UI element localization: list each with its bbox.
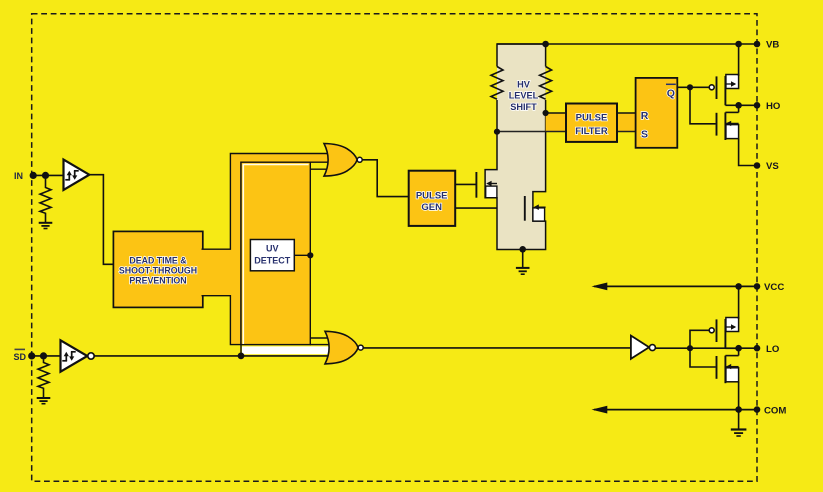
wire: UV line to NOR1 lower input — [310, 168, 333, 170]
svg-text:DEAD TIME &: DEAD TIME & — [129, 255, 187, 265]
node: gate feed junction — [687, 345, 693, 351]
ground (COM) — [731, 410, 747, 436]
svg-text:PREVENTION: PREVENTION — [129, 275, 186, 285]
resistor R3 (left level-shift) — [491, 67, 497, 101]
block: PULSE FILTER — [566, 104, 617, 142]
highlight margin inside UV bus block — [243, 165, 308, 345]
ground (IN resistor) — [39, 223, 53, 229]
wire: UV DETECT output — [294, 254, 310, 256]
buffer U2 (SD schmitt inverter) — [61, 340, 88, 371]
wire: inverter output to LO node — [655, 347, 738, 349]
svg-text:HV: HV — [517, 80, 531, 90]
svg-text:COM: COM — [764, 405, 786, 416]
svg-text:SD: SD — [14, 352, 27, 362]
wire: NOR1 output to pulse gen — [362, 160, 409, 197]
node: VCC junction — [735, 283, 742, 290]
transistor M1 (level shift left) — [476, 172, 497, 198]
node: IN resistor junction — [42, 172, 49, 179]
bubble U2 output — [88, 353, 94, 359]
svg-text:PULSE: PULSE — [416, 190, 448, 201]
node: level-shift source junction — [519, 246, 526, 253]
svg-text:UV: UV — [266, 244, 279, 254]
svg-text:HO: HO — [766, 101, 781, 112]
wire: SD line to NOR2 — [94, 355, 330, 357]
wire: buffer U1 output to dead-time block — [89, 175, 113, 265]
wire: pulse gen to M2 gate — [455, 207, 524, 209]
svg-text:SHOOT-THROUGH: SHOOT-THROUGH — [119, 265, 197, 275]
node: VB rail resistor junction — [542, 41, 549, 48]
svg-text:R: R — [641, 110, 649, 122]
svg-text:FILTER: FILTER — [575, 126, 608, 137]
buffer U1 (IN schmitt trigger) — [64, 160, 90, 191]
transistor Q4 (low-side NMOS) — [717, 356, 739, 384]
node HO junction + wire — [739, 104, 757, 106]
wire: R line — [546, 112, 636, 114]
wire: block bottom outline extension to NOR2 — [310, 344, 332, 346]
arrow (VCC to internal circuitry) — [592, 283, 608, 291]
svg-text:IN: IN — [14, 171, 23, 181]
wire: SD feed line through bus (vertical at x=241) — [240, 345, 242, 356]
node: Qbar junction — [687, 84, 693, 90]
svg-text:LO: LO — [766, 344, 780, 355]
wire: feed to Q3 gate — [690, 330, 709, 348]
transistor Q1 (high-side PMOS) — [709, 75, 738, 106]
wire: UV line to NOR2 upper input — [310, 337, 333, 339]
wire: VCC rail with arrow — [594, 285, 757, 287]
block: UV detect bus body — [241, 162, 310, 344]
HV level shift region (beige) — [485, 44, 545, 250]
node: VB rail output junction — [735, 41, 742, 48]
wire: VB to Q1 — [738, 44, 740, 76]
node: VCC pin — [754, 283, 761, 290]
node: UV output junction — [307, 252, 313, 258]
wire: Qbar to Q2 gate — [690, 87, 716, 124]
transistor Q3 (low-side PMOS) — [709, 318, 738, 349]
bubble U5 — [649, 345, 655, 351]
svg-text:GEN: GEN — [421, 202, 442, 213]
wire: pulse gen to M1 gate — [455, 183, 475, 185]
ground (level shift) — [516, 249, 530, 274]
wire: Qbar output — [677, 86, 709, 88]
node: COM pin — [754, 406, 761, 413]
wire: Q4 source to COM — [738, 382, 740, 410]
wire: S line — [497, 131, 636, 133]
hysteresis symbol U2 — [62, 352, 75, 361]
node: COM junction — [735, 406, 742, 413]
node: VB pin — [754, 41, 761, 48]
resistor R2 (SD pull-down) — [38, 360, 49, 398]
arrow (COM to internal circuitry) — [592, 406, 608, 414]
bus: S/R to pulse filter (orange) — [546, 113, 566, 132]
wire: Q2 source to VS — [739, 139, 757, 166]
transistor M2 (level shift right) — [525, 196, 546, 221]
node: SD junction at bus — [238, 353, 245, 360]
wire: VB rail — [497, 43, 757, 45]
svg-text:LEVEL: LEVEL — [509, 91, 539, 101]
svg-text:VS: VS — [766, 161, 779, 172]
node IN (dot on boundary) — [30, 172, 37, 179]
wire: SD to buffer — [32, 355, 61, 357]
svg-text:VCC: VCC — [764, 282, 784, 293]
node SD (dot on boundary) — [28, 352, 35, 359]
block: DEAD TIME & SHOOT-THROUGH PREVENTION — [113, 231, 202, 307]
white band above SD wire — [242, 346, 333, 354]
transistor Q2 (high-side NMOS) — [717, 112, 739, 140]
block: PULSE GEN — [409, 171, 456, 226]
hysteresis symbol U1 — [65, 171, 78, 180]
node: SD resistor junction — [40, 352, 47, 359]
resistor R1 (IN pull-down) — [40, 179, 51, 222]
node: VS pin — [754, 162, 761, 169]
wire: NOR2 output to LO inverter — [363, 347, 631, 349]
wire: feed to Q4 gate — [690, 348, 716, 367]
gate NOR1 (high side) — [324, 144, 362, 177]
wire: COM rail with arrow — [594, 409, 757, 411]
svg-text:PULSE: PULSE — [576, 112, 608, 123]
svg-text:Q: Q — [667, 88, 675, 100]
bus: dead-time outputs to NOR gates (orange bus) — [202, 154, 330, 345]
svg-text:VB: VB — [766, 40, 779, 51]
latch U3 (RS with Qbar) — [636, 78, 678, 148]
svg-text:SHIFT: SHIFT — [510, 102, 537, 112]
inverter U5 (LO driver) — [631, 336, 649, 359]
resistor R4 (right level-shift) — [540, 67, 546, 101]
svg-text:DETECT: DETECT — [254, 256, 291, 266]
node: S junction — [494, 129, 500, 135]
node LO junction + wire — [739, 347, 757, 349]
gate NOR2 (low side) — [325, 331, 363, 364]
node: R junction — [543, 110, 549, 116]
wire: IN to buffer — [33, 174, 63, 176]
ground (SD resistor) — [37, 398, 51, 404]
svg-text:S: S — [641, 128, 648, 140]
wire: VCC to Q3 — [738, 286, 740, 319]
block: UV DETECT — [250, 240, 294, 271]
